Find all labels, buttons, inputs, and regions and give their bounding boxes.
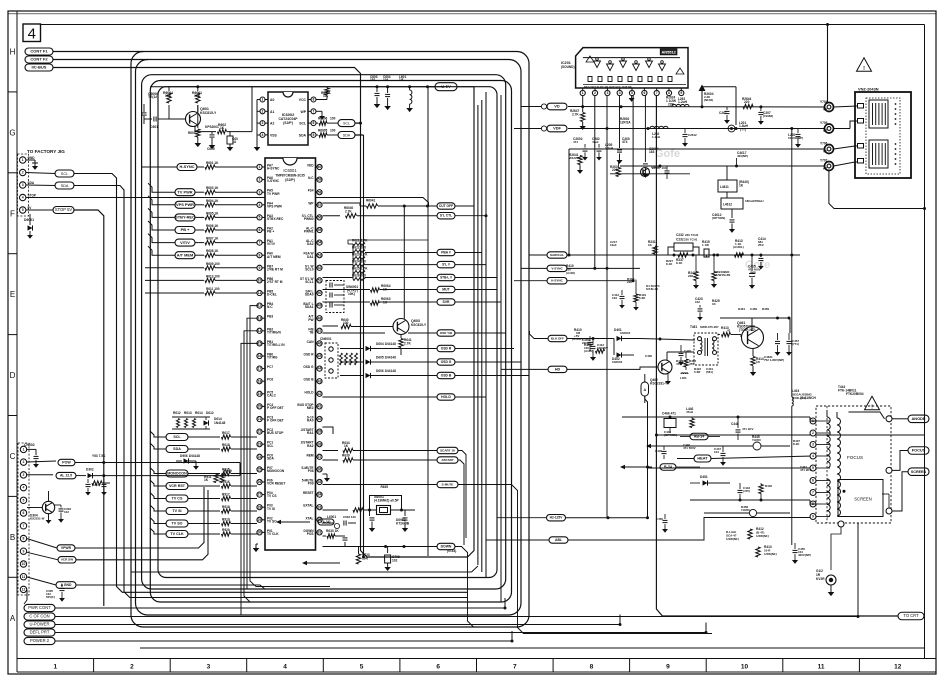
svg-text:L6001: L6001 <box>327 515 336 519</box>
fuse AB-3V <box>641 374 649 403</box>
svg-text:REM: REM <box>306 453 313 457</box>
svg-text:4: 4 <box>283 664 287 671</box>
diode D604 <box>340 342 437 351</box>
svg-text:10R: 10R <box>362 557 369 561</box>
switch SW6001 <box>326 281 358 313</box>
wire loop B <box>150 81 511 603</box>
wire s10 row <box>323 427 334 434</box>
svg-text:R609 100: R609 100 <box>206 262 220 266</box>
node V/T/V <box>175 239 195 246</box>
svg-text:100: 100 <box>330 128 336 132</box>
svg-text:48: 48 <box>318 316 322 320</box>
svg-text:T461: T461 <box>690 325 697 329</box>
wire DEFL PRT <box>55 623 706 633</box>
svg-text:SVR: SVR <box>442 300 450 304</box>
node PBA <box>437 249 482 255</box>
wire sound mid <box>610 173 690 175</box>
svg-text:SDA: SDA <box>61 184 69 188</box>
resistor R605 <box>195 211 257 219</box>
svg-text:2'RE RT M: 2'RE RT M <box>267 267 283 271</box>
wire SDA left <box>150 443 166 449</box>
diode D402 <box>612 339 634 365</box>
node A GND <box>56 582 265 589</box>
wire top bus <box>41 23 925 107</box>
wire fbt pin wires <box>816 421 830 517</box>
svg-text:8: 8 <box>23 537 25 541</box>
capacitor C4420 <box>764 333 784 362</box>
svg-text:(561): (561) <box>706 370 713 374</box>
svg-text:V1: V1 <box>823 150 827 154</box>
svg-text:REG DET IN DC NF OUT VCC OUT N: REG DET IN DC NF OUT VCC OUT NF <box>584 85 632 89</box>
wire pb1 left <box>241 343 258 615</box>
svg-text:P09: P09 <box>308 482 314 486</box>
svg-text:KV2R: KV2R <box>816 577 825 581</box>
wire sl row <box>323 264 438 266</box>
svg-text:VD: VD <box>554 104 560 109</box>
node TO CRT <box>898 612 924 620</box>
svg-text:MONOCON: MONOCON <box>267 469 285 473</box>
svg-text:C430: C430 <box>645 354 652 358</box>
node SAW/CAL <box>529 252 567 258</box>
inductor L4612 <box>721 198 763 218</box>
svg-text:C448: C448 <box>731 422 739 426</box>
inductor L202 <box>650 126 668 139</box>
capacitor C4612 <box>712 213 735 233</box>
svg-text:8: 8 <box>668 91 670 95</box>
label heat parts <box>664 430 696 450</box>
label drive parts <box>695 297 720 321</box>
wire V/T/V left <box>148 234 175 243</box>
ic U6002 eeprom <box>268 92 308 145</box>
node STBY-REC <box>175 214 195 221</box>
svg-text:5: 5 <box>22 208 24 212</box>
label q461 top <box>738 307 769 311</box>
svg-text:TV SI: TV SI <box>172 509 181 513</box>
node OSD G <box>437 359 521 365</box>
svg-text:3: 3 <box>606 91 608 95</box>
svg-text:OSD B: OSD B <box>441 373 452 377</box>
resistor R2644 <box>742 97 753 109</box>
node CUT OFF <box>437 203 474 209</box>
svg-text:DA2: DA2 <box>307 242 314 246</box>
svg-text:D604 1N4148: D604 1N4148 <box>376 342 396 346</box>
svg-text:10: 10 <box>741 664 749 671</box>
capacitor C443 <box>738 483 751 499</box>
wire TV CS left <box>150 493 166 499</box>
capacitor C303 <box>58 505 71 523</box>
svg-text:AL 12.5: AL 12.5 <box>60 474 72 478</box>
svg-text:SCL1: SCL1 <box>305 280 313 284</box>
svg-text:POW: POW <box>62 461 71 465</box>
node SDA pill right <box>338 132 355 139</box>
svg-text:R604 1K: R604 1K <box>206 199 219 203</box>
svg-text:H: H <box>10 48 16 57</box>
wire vcrsw row <box>27 552 58 560</box>
svg-text:(S2/P): (S2/P) <box>285 178 295 182</box>
capacitor C449 <box>655 446 667 459</box>
svg-text:8: 8 <box>313 98 315 102</box>
arrow feed4 <box>276 519 334 525</box>
label sound parts <box>573 137 613 161</box>
wire PWR CONT <box>55 598 505 608</box>
node HOLD <box>437 394 486 400</box>
svg-text:5: 5 <box>259 216 261 220</box>
resistor R723 <box>356 547 370 565</box>
node VCR SW <box>58 490 208 563</box>
resistor R633 <box>323 529 348 547</box>
svg-text:TH450: TH450 <box>741 508 750 512</box>
svg-text:R605 1K: R605 1K <box>206 211 219 215</box>
svg-text:Y706: Y706 <box>820 142 828 146</box>
svg-text:27: 27 <box>258 493 262 497</box>
svg-text:CALC: CALC <box>267 393 277 397</box>
svg-text:FTK20B004: FTK20B004 <box>846 392 864 396</box>
svg-text:TV PWR: TV PWR <box>267 192 280 196</box>
label bottom mid <box>447 549 456 553</box>
connector CN6001 <box>320 337 338 378</box>
wire MONOCON left <box>150 468 166 474</box>
svg-text:9: 9 <box>666 664 670 671</box>
svg-text:47uF: 47uF <box>592 140 599 144</box>
svg-text:A2: A2 <box>270 122 274 126</box>
svg-text:SCL: SCL <box>267 444 273 448</box>
svg-text:2: 2 <box>22 171 24 175</box>
svg-text:474: 474 <box>573 140 578 144</box>
svg-text:TMP87CM38N-3C35: TMP87CM38N-3C35 <box>275 174 305 178</box>
label vsync parts <box>610 240 660 291</box>
svg-text:2KV: 2KV <box>758 243 764 247</box>
svg-text:2: 2 <box>130 664 134 671</box>
wire CONT F1 <box>53 51 144 53</box>
node J/START <box>437 457 464 545</box>
svg-text:C267: C267 <box>719 111 727 115</box>
resistor R412 <box>748 527 769 539</box>
svg-text:R633 1K: R633 1K <box>326 529 339 533</box>
svg-text:L461: L461 <box>680 376 687 380</box>
svg-text:VCC: VCC <box>299 98 307 102</box>
svg-text:1-0uH: 1-0uH <box>605 146 613 150</box>
svg-text:3: 3 <box>812 443 814 447</box>
label q462 parts <box>645 354 683 366</box>
svg-text:TV CLK: TV CLK <box>267 532 279 536</box>
svg-text:2'ST RT M: 2'ST RT M <box>267 280 283 284</box>
svg-text:HOLD: HOLD <box>305 390 315 394</box>
svg-text:IC6001: IC6001 <box>283 168 297 173</box>
capacitor C260 <box>616 137 629 164</box>
svg-text:46: 46 <box>318 342 322 346</box>
svg-text:R611 100: R611 100 <box>206 287 220 291</box>
svg-text:7: 7 <box>513 664 517 671</box>
svg-text:1N4004: 1N4004 <box>620 331 631 335</box>
svg-text:R635: R635 <box>381 485 389 489</box>
svg-text:R614: R614 <box>195 411 203 415</box>
svg-text:WP: WP <box>301 110 307 114</box>
svg-text:9: 9 <box>259 266 261 270</box>
node TV PWR <box>175 189 195 196</box>
svg-text:29: 29 <box>258 518 262 522</box>
svg-text:12P/2A: 12P/2A <box>620 120 631 124</box>
svg-text:102: 102 <box>392 559 398 563</box>
svg-text:102/25V: 102/25V <box>597 346 608 350</box>
svg-text:OSD Y/B: OSD Y/B <box>440 331 453 335</box>
resistor R463 <box>665 352 696 385</box>
svg-text:C601: C601 <box>150 125 158 129</box>
svg-text:N.C: N.C <box>308 176 314 180</box>
svg-text:2: 2 <box>262 109 264 113</box>
svg-text:CN6001: CN6001 <box>320 337 332 341</box>
wire scl-bus <box>74 100 482 592</box>
wire pb4 left <box>247 318 258 589</box>
svg-text:41: 41 <box>318 405 322 409</box>
svg-text:PC6: PC6 <box>267 378 273 382</box>
wire U-POWER <box>55 615 620 625</box>
svg-text:TO FACTORY JIG: TO FACTORY JIG <box>27 149 65 154</box>
label hd parts <box>584 343 605 353</box>
svg-text:47: 47 <box>727 329 731 333</box>
svg-text:SCL: SCL <box>343 121 350 125</box>
wire sda right <box>355 134 364 136</box>
svg-text:1K: 1K <box>344 444 349 448</box>
node V-SYNC r <box>521 265 567 271</box>
node TV SO <box>166 520 188 527</box>
svg-text:CUT OFF: CUT OFF <box>439 204 453 208</box>
svg-text:36: 36 <box>318 468 322 472</box>
wire pow row <box>27 461 56 462</box>
wire loop E <box>158 87 497 578</box>
svg-text:5: 5 <box>313 133 315 137</box>
svg-text:23: 23 <box>258 442 262 446</box>
wire hd run <box>567 367 658 369</box>
svg-text:45: 45 <box>318 354 322 358</box>
svg-text:1: 1 <box>259 165 261 169</box>
svg-text:A: A <box>10 614 16 623</box>
svg-text:D302: D302 <box>86 468 94 472</box>
svg-text:R612: R612 <box>173 411 181 415</box>
resistor R6xx q603e <box>399 335 412 356</box>
node TV CS <box>166 495 188 502</box>
wire sda-bus <box>74 105 478 598</box>
svg-text:PC7: PC7 <box>267 365 273 369</box>
capacitor C6005 <box>205 125 219 151</box>
capacitor C631 <box>370 510 375 528</box>
capacitor C448 <box>731 417 753 440</box>
svg-text:1/2W(NF): 1/2W(NF) <box>726 537 739 541</box>
svg-text:25: 25 <box>258 468 262 472</box>
svg-text:40: 40 <box>318 417 322 421</box>
svg-text:P OFF DET: P OFF DET <box>267 419 284 423</box>
wire VCR RST left <box>150 480 166 486</box>
svg-text:21: 21 <box>258 417 262 421</box>
node DEFL PRT <box>24 629 55 636</box>
node OSD B <box>437 372 529 378</box>
ground jig <box>26 160 38 170</box>
svg-text:220 TCH1: 220 TCH1 <box>685 233 699 237</box>
wire down row <box>323 545 438 548</box>
svg-text:10: 10 <box>258 279 262 283</box>
svg-text:F: F <box>10 209 15 218</box>
wire right inner v <box>923 25 926 659</box>
wire crt riser <box>857 523 859 617</box>
svg-text:220: 220 <box>744 100 750 104</box>
svg-text:5: 5 <box>631 91 633 95</box>
svg-text:5-6K: 5-6K <box>639 296 646 300</box>
svg-text:V/T/V: V/T/V <box>180 240 190 245</box>
resistor ladder R621-R626 <box>348 238 428 280</box>
node S-MUTE <box>437 481 712 633</box>
svg-text:R917: R917 <box>222 493 230 497</box>
node VPS PWR <box>175 201 195 208</box>
wire H-SYNC left <box>141 166 177 168</box>
svg-text:STB-L #: STB-L # <box>440 275 452 279</box>
svg-text:16: 16 <box>258 354 262 358</box>
svg-text:V/T/V: V/T/V <box>267 242 276 246</box>
capacitor C6003 <box>370 75 380 104</box>
svg-text:ME2: ME2 <box>307 406 314 410</box>
wire bus v501 <box>500 95 502 602</box>
svg-text:VPS PWR: VPS PWR <box>176 202 194 207</box>
node SCL <box>166 434 188 441</box>
wire PB + left <box>148 221 175 230</box>
wire drive top <box>776 317 791 334</box>
wire bus v486 <box>485 92 487 578</box>
svg-text:4: 4 <box>23 486 25 490</box>
svg-text:D461: D461 <box>738 307 745 311</box>
capacitor C450 <box>656 514 668 533</box>
svg-text:PB3: PB3 <box>267 315 273 319</box>
node A/T MEM <box>175 252 195 259</box>
svg-text:V-SYNC: V-SYNC <box>551 266 563 270</box>
svg-text:13: 13 <box>258 316 262 320</box>
wire TV PWR left <box>148 183 175 192</box>
svg-text:H-SYNC: H-SYNC <box>267 167 280 171</box>
svg-text:POWER 2: POWER 2 <box>30 638 50 643</box>
svg-text:11: 11 <box>818 664 825 671</box>
node H-SYNC <box>177 164 197 171</box>
svg-text:U-POWER: U-POWER <box>29 622 49 627</box>
svg-text:L4611: L4611 <box>720 185 729 189</box>
svg-text:DA1: DA1 <box>307 255 314 259</box>
svg-text:(475): (475) <box>743 489 750 493</box>
resistor R263 <box>610 160 621 177</box>
svg-text:22K: 22K <box>688 274 694 278</box>
svg-text:TE(1#): TE(1#) <box>148 95 158 99</box>
junction dots bottom <box>504 607 860 643</box>
resistor R2624 <box>666 96 676 107</box>
svg-text:7: 7 <box>259 241 261 245</box>
svg-text:102: 102 <box>695 300 700 304</box>
svg-text:H-SYNC: H-SYNC <box>180 164 195 169</box>
svg-text:1 1W: 1 1W <box>702 243 709 247</box>
label R2641 <box>569 153 583 174</box>
node PB + <box>175 227 195 234</box>
ground c631 <box>369 528 375 532</box>
svg-text:VCR RST: VCR RST <box>169 484 186 488</box>
wire CONT F2 <box>53 59 148 61</box>
svg-text:VSS: VSS <box>270 133 278 137</box>
ground c6003 <box>374 104 381 108</box>
resistor R639 <box>323 454 438 463</box>
svg-text:KSC2331-Y: KSC2331-Y <box>650 382 668 386</box>
svg-text:S-MUTE: S-MUTE <box>442 482 454 486</box>
svg-text:38: 38 <box>318 442 322 446</box>
wire C OF CON <box>55 607 858 617</box>
svg-text:1/2W(NF): 1/2W(NF) <box>756 534 769 538</box>
svg-text:1U: 1U <box>232 140 237 144</box>
svg-text:35: 35 <box>318 480 322 484</box>
heater G2 <box>816 569 836 596</box>
svg-text:1: 1 <box>53 664 57 671</box>
capacitor C2609 <box>788 129 803 148</box>
svg-text:PB +: PB + <box>181 227 190 232</box>
svg-text:7: 7 <box>656 91 658 95</box>
svg-text:R6005: R6005 <box>318 128 328 132</box>
svg-text:EXTAL: EXTAL <box>303 504 313 508</box>
watermark <box>655 148 770 271</box>
svg-text:R618: R618 <box>222 443 230 447</box>
svg-text:U-5V: U-5V <box>441 84 451 89</box>
node VCR RST <box>166 483 188 490</box>
svg-text:12: 12 <box>894 664 902 671</box>
svg-text:R459: R459 <box>762 307 769 311</box>
module VNZ-2043N <box>855 87 911 179</box>
svg-text:A2: A2 <box>823 167 827 171</box>
svg-text:E: E <box>10 290 15 299</box>
flyback secondary <box>827 412 844 570</box>
connector Y704 <box>820 100 858 112</box>
svg-text:D-CEL: D-CEL <box>267 293 277 297</box>
svg-text:STBY-REC: STBY-REC <box>175 215 195 220</box>
node VD <box>521 103 567 110</box>
svg-text:S'L #: S'L # <box>442 263 450 267</box>
label AB pill <box>680 433 720 440</box>
svg-text:180uH/780uH: 180uH/780uH <box>745 199 763 203</box>
label R2604 <box>704 92 714 102</box>
wire vd run <box>568 105 828 108</box>
capacitor C6001 <box>144 117 169 130</box>
resistor R419 <box>633 280 646 311</box>
node POW <box>58 459 75 465</box>
capacitor C415 <box>748 254 761 289</box>
svg-text:R6006: R6006 <box>318 117 328 121</box>
svg-text:L4612: L4612 <box>723 203 732 207</box>
capacitor C412 <box>612 290 625 309</box>
ic U201 <box>561 48 688 88</box>
node AL 12.5 <box>56 472 76 478</box>
svg-text:R603: R603 <box>188 131 196 135</box>
wire y707 drop <box>829 171 925 209</box>
ground eeprom <box>254 147 261 151</box>
svg-text:47uH: 47uH <box>686 410 693 414</box>
svg-text:471 2KV: 471 2KV <box>800 468 811 472</box>
ground c6004 <box>384 106 391 110</box>
svg-text:4: 4 <box>619 91 621 95</box>
svg-text:31: 31 <box>318 531 322 535</box>
svg-text:S/T/B-3K: S/T/B-3K <box>646 287 659 291</box>
ground q601-2 <box>209 145 216 149</box>
svg-text:220uF: 220uF <box>582 341 591 345</box>
svg-text:B: B <box>10 533 15 542</box>
svg-text:(NP): (NP) <box>750 271 756 275</box>
resistor R237 <box>676 253 688 265</box>
wire agnd row <box>27 577 56 585</box>
wire A/T MEM left <box>148 246 175 255</box>
node H2-125V <box>497 515 566 521</box>
diode D401 <box>612 328 640 341</box>
node S'L # <box>437 261 486 267</box>
diode D302 <box>76 468 240 479</box>
label FOCUS <box>847 455 863 460</box>
svg-text:A/T MEM: A/T MEM <box>267 255 281 259</box>
